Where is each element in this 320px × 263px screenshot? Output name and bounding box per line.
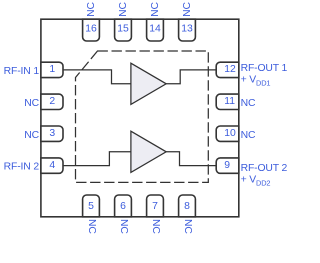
svg-text:1: 1 <box>49 64 55 75</box>
svg-text:NC: NC <box>241 98 256 109</box>
op-amp A2 <box>131 131 166 172</box>
svg-text:5: 5 <box>88 201 94 212</box>
svg-text:RF-OUT 2: RF-OUT 2 <box>241 163 288 174</box>
svg-text:RF-OUT 1: RF-OUT 1 <box>241 63 288 74</box>
pin 1 pad <box>41 62 63 77</box>
svg-text:NC: NC <box>86 2 97 17</box>
svg-text:2: 2 <box>49 96 55 107</box>
svg-text:RF-IN 1: RF-IN 1 <box>4 66 40 77</box>
pin 13 pad <box>179 19 196 41</box>
svg-text:4: 4 <box>49 160 55 171</box>
pin 4 pad <box>41 158 63 173</box>
die outline (dashed, chamfered pin-1 corner) <box>76 51 209 182</box>
wire pin4 to A2 input <box>63 152 131 166</box>
pin 16 pad <box>83 19 100 41</box>
svg-text:7: 7 <box>152 201 158 212</box>
pin 8 pad <box>179 195 196 217</box>
pin 11 pad <box>216 94 239 109</box>
svg-text:NC: NC <box>182 219 193 234</box>
svg-text:NC: NC <box>182 2 193 17</box>
svg-text:8: 8 <box>184 201 190 212</box>
pin 12 label RF-OUT 1 + VDD1 <box>241 63 288 88</box>
svg-text:9: 9 <box>224 160 230 171</box>
op-amp A1 <box>131 63 166 104</box>
svg-text:3: 3 <box>49 128 55 139</box>
svg-text:NC: NC <box>24 98 39 109</box>
svg-text:10: 10 <box>224 128 236 139</box>
svg-text:16: 16 <box>85 24 97 35</box>
svg-text:NC: NC <box>24 130 39 141</box>
svg-text:NC: NC <box>118 2 129 17</box>
svg-text:+ VDD1: + VDD1 <box>241 74 271 87</box>
pin 14 pad <box>147 19 164 41</box>
pin 9 label RF-OUT 2 + VDD2 <box>241 163 288 188</box>
pin 12 pad <box>216 62 239 77</box>
pin 10 pad <box>216 126 239 141</box>
svg-text:6: 6 <box>120 201 126 212</box>
svg-text:11: 11 <box>224 96 235 107</box>
svg-text:14: 14 <box>149 24 161 35</box>
svg-text:13: 13 <box>181 24 193 35</box>
package outline <box>41 19 239 217</box>
svg-text:NC: NC <box>150 2 161 17</box>
svg-text:+ VDD2: + VDD2 <box>241 174 271 187</box>
wire pin1 to A1 input <box>63 70 131 84</box>
wire A1 output to pin12 <box>166 70 216 84</box>
pin 5 pad <box>83 195 100 217</box>
svg-text:12: 12 <box>224 64 236 75</box>
svg-text:NC: NC <box>86 219 97 234</box>
svg-text:NC: NC <box>150 219 161 234</box>
pin 7 pad <box>147 195 164 217</box>
pin 6 pad <box>115 195 132 217</box>
pin 2 pad <box>41 94 63 109</box>
wire A2 output to pin9 <box>166 152 216 166</box>
svg-text:RF-IN 2: RF-IN 2 <box>4 162 40 173</box>
svg-text:15: 15 <box>117 24 129 35</box>
svg-text:NC: NC <box>118 219 129 234</box>
svg-text:NC: NC <box>241 130 256 141</box>
pin 9 pad <box>216 158 239 173</box>
pin 3 pad <box>41 126 63 141</box>
pin 15 pad <box>115 19 132 41</box>
